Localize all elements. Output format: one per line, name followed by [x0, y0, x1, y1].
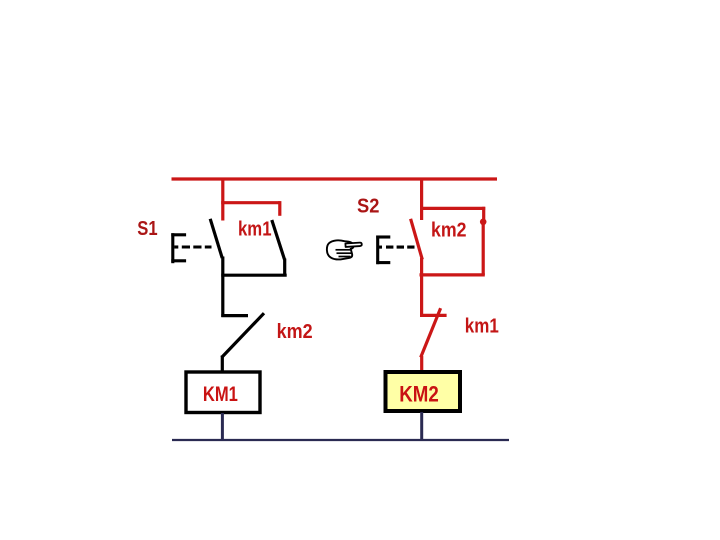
top rail L1 (red supply line) [172, 177, 498, 180]
pushbutton S1 actuator (E bracket with dashed link) [171, 233, 211, 263]
svg-text:km1: km1 [465, 315, 499, 338]
contact km1 normally-open (black moving arm, parallel branch) [272, 220, 285, 277]
contact km1 normally-closed (red) [420, 308, 447, 371]
wire: right parallel branch right side down (red) [482, 222, 485, 275]
svg-text:km2: km2 [431, 218, 467, 241]
wire: right parallel branch top (red) [420, 207, 485, 220]
wire: right branch drop from top rail (red) [420, 179, 423, 220]
coil KM2 (contactor coil box, highlighted) [386, 372, 461, 411]
svg-text:KM1: KM1 [203, 382, 238, 406]
svg-text:km2: km2 [277, 320, 313, 343]
wire: parallel branch bottom join (black) [221, 274, 286, 277]
svg-text:KM2: KM2 [399, 381, 439, 406]
svg-text:S1: S1 [137, 218, 157, 240]
contact km2 normally-closed (black) [221, 313, 264, 371]
wire: KM1 to bottom rail (navy) [221, 413, 224, 440]
wire: KM2 to bottom rail (navy) [420, 412, 423, 440]
coil KM1 (contactor coil box) [186, 372, 260, 413]
wire: right parallel branch bottom join (red) [420, 273, 485, 276]
contact S1 normally-open (black moving arm) [210, 219, 222, 258]
junction dot (red node) [480, 219, 487, 226]
pushbutton S2 actuator (E bracket with dashed link) [376, 236, 414, 265]
wire: right main vertical (red) [420, 258, 423, 317]
svg-text:S2: S2 [357, 196, 379, 218]
wire: left main vertical (black) [221, 257, 224, 318]
bottom rail N (navy return line) [172, 439, 509, 441]
pointer icon (right-pointing hand) [327, 240, 362, 259]
contact S2 normally-open (red moving arm) [411, 219, 423, 260]
svg-text:km1: km1 [238, 219, 272, 241]
wire: left branch drop from top rail [221, 179, 224, 221]
wire: left parallel branch top (red) [221, 201, 280, 216]
